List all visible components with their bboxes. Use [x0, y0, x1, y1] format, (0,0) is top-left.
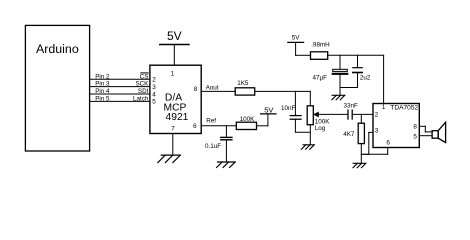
svg-text:Aout: Aout	[206, 84, 219, 91]
wire TDA pin6	[387, 148, 389, 155]
wire 1K5 to pot top node	[255, 90, 311, 92]
svg-text:8: 8	[194, 86, 198, 93]
svg-text:Pin 5: Pin 5	[95, 96, 110, 103]
svg-text:4: 4	[152, 91, 156, 98]
svg-text:3: 3	[375, 127, 379, 134]
capacitor 10nF	[294, 91, 296, 115]
wire pin4 net	[90, 93, 150, 95]
svg-text:100K: 100K	[240, 116, 256, 123]
inductor .98mH	[311, 52, 328, 60]
pot wiper arrowhead	[313, 112, 318, 117]
capacitor 0.1uF	[225, 126, 227, 138]
svg-text:Pin 4: Pin 4	[95, 88, 110, 95]
wire TDA pin5 to speaker	[419, 135, 432, 137]
svg-text:8: 8	[413, 123, 417, 130]
wire pin3 net	[90, 86, 150, 88]
wire 4K7 to ground	[360, 144, 362, 164]
wire TDA pin3	[369, 131, 373, 133]
svg-text:10nF: 10nF	[281, 105, 296, 112]
svg-text:5V: 5V	[292, 35, 301, 42]
amplifier TDA7052 box	[373, 104, 419, 148]
svg-text:SCK: SCK	[135, 81, 149, 88]
svg-text:7: 7	[171, 126, 175, 133]
svg-text:47µF: 47µF	[313, 75, 328, 82]
svg-text:SDI: SDI	[138, 88, 149, 95]
wire inductor to TDA pin1	[328, 54, 384, 56]
svg-text:2: 2	[375, 112, 379, 119]
ground under pot	[301, 145, 314, 149]
svg-text:6: 6	[193, 123, 197, 130]
wire down to pot top	[309, 91, 311, 105]
wire 100K to 5V	[257, 125, 268, 127]
potentiometer 100K Log body	[307, 106, 313, 125]
svg-text:0.1uF: 0.1uF	[205, 143, 221, 150]
resistor 1K5	[235, 88, 255, 95]
svg-text:CS: CS	[140, 73, 149, 80]
svg-text:3: 3	[152, 84, 156, 91]
5V supply at ref divider	[261, 113, 276, 115]
resistor 4K7	[358, 123, 364, 143]
ground under MCP	[158, 155, 180, 162]
wire pot bottom to ground	[309, 125, 311, 145]
speaker LS1	[432, 131, 438, 139]
svg-text:1K5: 1K5	[237, 80, 249, 87]
svg-text:Log: Log	[315, 125, 326, 132]
wire 33nF to TDA pin2	[352, 113, 373, 115]
svg-text:1: 1	[171, 71, 175, 78]
5V supply over MCP4921	[160, 44, 189, 46]
svg-text:Pin 3: Pin 3	[95, 81, 110, 88]
wire 2u2 bottom to 47uF ground stem	[340, 87, 358, 89]
pot wiper arrow wire	[314, 113, 348, 115]
wire Aout pin8 to R 1K5	[201, 90, 235, 92]
ground under 0.1uF	[217, 162, 236, 167]
svg-text:5V: 5V	[264, 106, 274, 115]
svg-text:6: 6	[386, 140, 390, 147]
svg-text:1: 1	[382, 104, 386, 111]
wire 5V to pin1	[173, 45, 175, 66]
CS overline	[141, 72, 148, 74]
svg-text:4K7: 4K7	[343, 131, 355, 138]
svg-text:5: 5	[152, 99, 156, 106]
svg-text:Arduino: Arduino	[36, 42, 79, 56]
wire Ref pin6 to R 100K	[201, 125, 236, 127]
svg-text:5V: 5V	[167, 29, 182, 43]
5V supply top right	[288, 41, 304, 43]
wire pin5 net	[90, 100, 150, 102]
capacitor 47uF electrolytic	[339, 55, 341, 69]
Arduino board box	[25, 25, 89, 151]
wire TDA pin8 to speaker	[419, 125, 425, 127]
DAC U1 MCP4921 box	[150, 65, 201, 133]
svg-text:5: 5	[413, 133, 417, 140]
wire pin2 net	[90, 78, 150, 80]
ground under 47uF	[332, 95, 345, 99]
ground under 4K7	[353, 163, 366, 167]
wire MCP pin7 to ground	[172, 134, 174, 156]
wire 10nF bottom to pot bottom	[295, 131, 310, 133]
svg-text:Latch: Latch	[133, 96, 149, 103]
svg-text:2u2: 2u2	[360, 75, 371, 82]
wire 5V to inductor	[296, 54, 311, 56]
svg-text:33nF: 33nF	[344, 102, 359, 109]
svg-text:TDA7052: TDA7052	[390, 104, 418, 111]
svg-text:Pin 2: Pin 2	[95, 73, 110, 80]
svg-text:2: 2	[152, 77, 156, 84]
wire junction down to 4K7	[360, 114, 362, 123]
svg-text:Ref: Ref	[206, 117, 216, 124]
svg-text:4921: 4921	[166, 112, 189, 123]
capacitor 33nF	[347, 110, 349, 119]
capacitor 2u2	[357, 55, 359, 67]
resistor 100K	[236, 122, 256, 129]
svg-text:.98mH: .98mH	[311, 41, 330, 48]
